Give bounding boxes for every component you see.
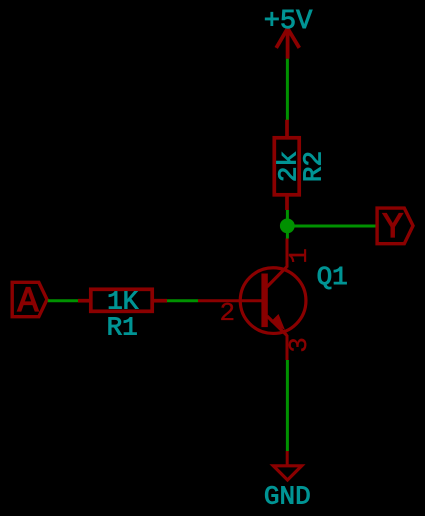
svg-text:R2: R2 <box>298 151 328 182</box>
collector pin line <box>286 239 289 268</box>
svg-text:Y: Y <box>382 208 403 248</box>
svg-text:GND: GND <box>264 482 311 512</box>
emitter arrow <box>271 314 286 330</box>
junction node <box>280 219 295 234</box>
wire A to R1 <box>48 299 78 302</box>
global label A <box>12 282 47 322</box>
svg-text:2: 2 <box>219 298 235 328</box>
resistor R1 <box>78 289 167 311</box>
base bar <box>261 274 267 328</box>
emitter diagonal <box>267 316 287 336</box>
ground symbol GND <box>273 451 301 480</box>
svg-text:Q1: Q1 <box>317 262 348 292</box>
resistor R2 <box>274 120 299 210</box>
svg-text:A: A <box>17 282 38 322</box>
transistor Q1 <box>198 239 348 361</box>
svg-text:3: 3 <box>284 337 314 353</box>
collector diagonal <box>267 267 287 287</box>
wire V+ to R2 <box>286 59 289 120</box>
emitter pin line <box>286 335 289 360</box>
svg-text:1: 1 <box>284 248 314 264</box>
wire Q1 emitter to GND <box>286 360 289 451</box>
svg-text:+5V: +5V <box>264 7 313 37</box>
wire R2 to node <box>286 210 289 239</box>
wire node to Y <box>287 225 377 228</box>
wire R1 to Q1 base <box>167 299 198 302</box>
global label Y <box>377 208 413 248</box>
svg-text:R1: R1 <box>107 313 138 343</box>
base pin line <box>198 299 262 302</box>
power symbol +5V <box>276 28 299 58</box>
body circle <box>240 268 306 334</box>
